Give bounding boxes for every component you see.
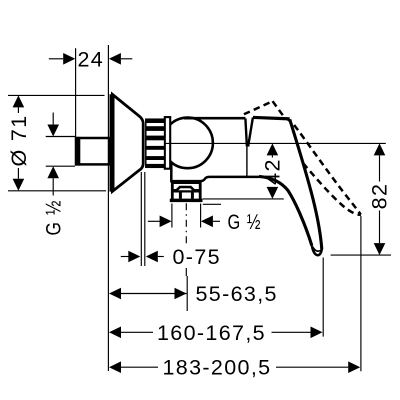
body tube top edge — [184, 117, 245, 120]
lever handle solid — [253, 117, 322, 255]
lever handle dashed (raised position) — [244, 101, 361, 215]
svg-text:Ø 71: Ø 71 — [7, 114, 31, 166]
valve body sphere — [162, 118, 213, 169]
outlet centerline — [185, 203, 188, 311]
dimension 160-167,5 — [109, 258, 323, 345]
axis reference line — [166, 142, 386, 144]
dimension G1/2 outlet — [148, 204, 262, 234]
wall reference line — [107, 45, 109, 371]
svg-text:G ½: G ½ — [228, 210, 262, 234]
ribbed union nut collar — [146, 119, 165, 167]
dimension 55-63,5 — [109, 282, 278, 306]
outlet nut — [170, 183, 203, 202]
svg-text:82: 82 — [368, 183, 392, 210]
dimension 82 — [331, 143, 392, 255]
dimension diameter 71 — [7, 95, 106, 190]
retaining ring — [165, 117, 170, 169]
svg-text:0-75: 0-75 — [173, 245, 221, 269]
G1/2 inlet nipple — [76, 137, 110, 166]
svg-text:55-63,5: 55-63,5 — [196, 282, 278, 306]
body right edge — [246, 145, 248, 176]
body right-end notch — [245, 118, 247, 146]
dimension 0-75 — [121, 172, 221, 269]
body underside step — [171, 164, 259, 182]
svg-text:160-167,5: 160-167,5 — [157, 321, 266, 345]
dimension 183-200,5 — [109, 216, 361, 380]
svg-text:24: 24 — [77, 47, 104, 71]
svg-text:42: 42 — [261, 158, 285, 185]
svg-text:G ½: G ½ — [42, 200, 66, 236]
dimension G1/2 inlet — [42, 113, 76, 236]
escutcheon cone — [112, 94, 143, 191]
dimension 24 — [49, 47, 133, 137]
dimension 42 — [203, 143, 285, 199]
escutcheon face plate — [110, 94, 113, 191]
svg-text:183-200,5: 183-200,5 — [163, 356, 272, 380]
small edge right of nut — [203, 203, 221, 205]
